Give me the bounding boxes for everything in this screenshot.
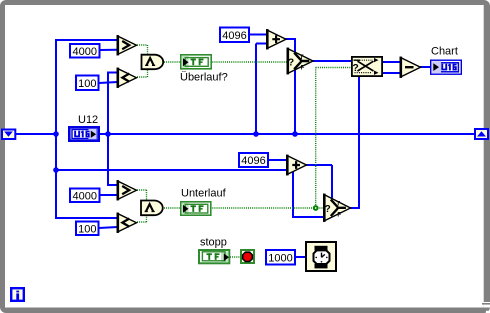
TF indicator Ueberlauf <box>181 55 211 69</box>
label stopp <box>200 236 227 248</box>
svg-text:4096: 4096 <box>241 155 265 167</box>
shift register right <box>475 129 488 139</box>
TF control stopp <box>199 250 229 263</box>
wire y170 feed to add2 bottom input <box>55 169 287 171</box>
wire swap bottom output to subtract <box>383 72 402 74</box>
boolean wire greater2 to and2 <box>137 190 147 200</box>
less? function top <box>117 68 137 88</box>
junction x295 main <box>292 131 298 137</box>
boolean wire vertical to swap s input <box>316 68 351 208</box>
numeric constant 100 top <box>76 76 99 91</box>
svg-text:100: 100 <box>78 223 96 235</box>
label Ueberlauf? <box>180 72 228 84</box>
wire subtract output to chart <box>420 66 431 68</box>
iteration terminal i <box>11 288 24 301</box>
numeric constant 100 bottom <box>76 222 99 236</box>
wire 100b to less2 <box>99 227 118 228</box>
U16 indicator Chart <box>431 60 462 74</box>
wire add2 output to select2 t input <box>305 165 332 199</box>
greater? function bottom <box>117 180 137 200</box>
label Chart <box>431 46 458 58</box>
junction x56 y170 <box>53 167 59 173</box>
add function bottom <box>286 155 307 176</box>
wire y218 feed to less2 <box>55 217 118 219</box>
wire main to add1 bottom input <box>256 44 268 135</box>
junction x108 main <box>105 131 111 137</box>
boolean wire stopp to loop condition <box>230 256 241 258</box>
and function top <box>142 55 164 69</box>
svg-text:Chart: Chart <box>431 46 458 58</box>
wire main to select1 f input <box>294 68 296 134</box>
wire U12 output <box>100 133 110 135</box>
svg-text:T: T <box>336 202 340 208</box>
U16 control U12 <box>69 127 98 140</box>
svg-text:Unterlauf: Unterlauf <box>181 188 227 200</box>
svg-text:4096: 4096 <box>222 30 246 42</box>
less? function bottom <box>117 213 137 233</box>
svg-text:?: ? <box>325 204 331 215</box>
wire 4000b to greater2 <box>100 194 118 196</box>
wire x108 to less1 <box>107 72 118 74</box>
numeric constant 4000 top <box>70 44 100 58</box>
wait ms timer function <box>306 242 336 271</box>
svg-text:Überlauf?: Überlauf? <box>180 72 228 84</box>
wire 4096a to add1 top input <box>250 34 268 36</box>
wire select1 output to swap <box>313 60 352 62</box>
svg-text:stopp: stopp <box>200 236 227 248</box>
wire add1 output to select1 t input <box>284 38 295 54</box>
svg-text:?: ? <box>352 62 358 74</box>
wire select2 output <box>350 207 360 209</box>
boolean wire less1 to and1 <box>137 69 148 77</box>
junction boolean green <box>313 205 319 211</box>
svg-text:100: 100 <box>78 78 96 90</box>
label U12 <box>78 114 98 126</box>
svg-text:4000: 4000 <box>73 46 97 58</box>
junction x56 main <box>53 131 59 137</box>
junction x256 main <box>253 131 259 137</box>
loop condition terminal stop if true <box>241 250 254 263</box>
svg-text:T: T <box>300 55 304 61</box>
boolean wire greater1 to and1 <box>137 45 148 54</box>
shift register left <box>2 130 15 140</box>
TF indicator Unterlauf <box>181 202 211 215</box>
select function top <box>287 48 314 75</box>
add function top <box>266 29 286 49</box>
wire swap bottom vertical <box>358 77 360 208</box>
wire 1000 to wait <box>296 256 306 258</box>
numeric constant 1000 <box>266 250 295 265</box>
svg-text:F: F <box>301 66 305 72</box>
numeric constant 4000 bottom <box>70 189 100 203</box>
select function bottom <box>323 194 351 222</box>
numeric constant 4096 top <box>220 28 249 43</box>
svg-text:U12: U12 <box>78 114 98 126</box>
and function bottom <box>141 201 163 216</box>
numeric constant 4096 bottom <box>239 153 268 167</box>
wire main horizontal <box>107 133 475 135</box>
wire 4096b to add2 top input <box>269 159 288 161</box>
greater? function top <box>117 35 137 55</box>
wire top feed to greater <box>55 39 118 41</box>
wire main left SR to junction <box>15 133 57 135</box>
wire 100a to less1 <box>99 82 118 83</box>
wire 4000a to greater1 <box>100 49 118 51</box>
wire vertical trunk x108 <box>107 72 109 186</box>
svg-text:F: F <box>337 212 341 218</box>
svg-text:4000: 4000 <box>73 190 97 202</box>
subtract function <box>400 57 421 78</box>
wire branch to select2 f input <box>292 171 331 217</box>
svg-text:?: ? <box>288 57 294 68</box>
wire swap top output to subtract <box>383 61 402 63</box>
boolean wire and2 to select2 s input <box>164 207 324 209</box>
svg-text:1000: 1000 <box>268 252 292 264</box>
wire x108 to greater2 <box>107 184 118 186</box>
wire vertical trunk x56 <box>55 40 57 219</box>
boolean wire and1 to select1 s input <box>164 61 288 63</box>
swap values function <box>352 57 382 76</box>
label Unterlauf <box>181 188 227 200</box>
boolean wire less2 to and2 <box>137 215 147 222</box>
